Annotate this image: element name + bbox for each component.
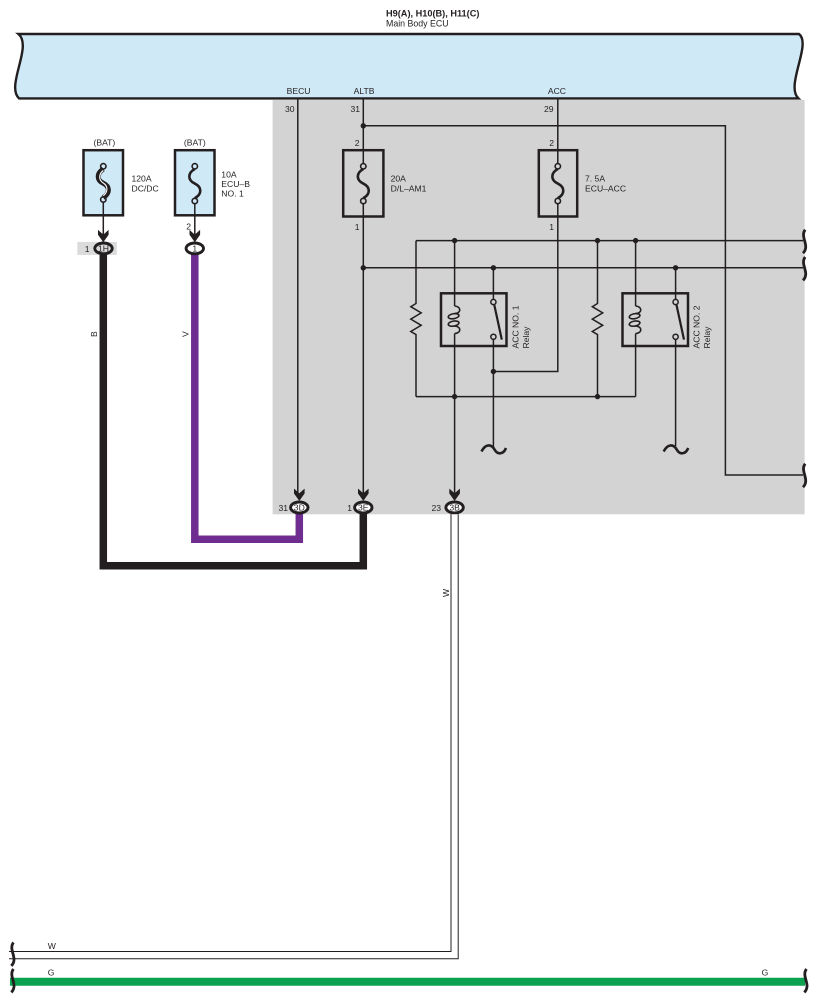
node dot resistor2 bottom [595, 394, 600, 399]
svg-text:Relay: Relay [702, 326, 712, 349]
break symbol W left [11, 943, 14, 966]
fusible link 120A DC/DC (BAT box) [84, 138, 124, 216]
svg-text:3D: 3D [294, 502, 305, 512]
svg-text:Relay: Relay [521, 326, 531, 349]
svg-text:1: 1 [355, 222, 360, 232]
label V [180, 331, 190, 337]
resistor R2 (relay 2 suppression) [592, 241, 602, 397]
connector 3E oval [355, 502, 372, 513]
relay ACC NO.1 box [441, 293, 507, 346]
svg-text:1H: 1H [98, 243, 109, 253]
svg-text:2: 2 [186, 222, 191, 232]
fuse 20A D/L-AM1 [343, 150, 383, 216]
svg-text:1: 1 [85, 244, 90, 254]
resistor R1 (relay 1 suppression) [411, 241, 421, 397]
wire ACC vertical above fuse [557, 99, 559, 164]
label B [89, 331, 99, 337]
ground (relay 1 contact) [482, 372, 507, 454]
relay ACC NO.2 label [692, 305, 713, 348]
connector 1H oval [95, 243, 112, 254]
relay ACC NO.2 coil [629, 241, 641, 397]
svg-text:V: V [180, 331, 190, 337]
break symbol G right [804, 969, 807, 992]
connector 3B arrow [449, 489, 460, 501]
connector 1 oval [186, 243, 203, 254]
fuse 10A ECU-B NO.1 (BAT box) [175, 138, 215, 216]
svg-text:Main Body ECU: Main Body ECU [386, 19, 449, 29]
svg-text:DC/DC: DC/DC [132, 184, 159, 194]
svg-text:31: 31 [350, 104, 360, 114]
svg-text:3E: 3E [358, 502, 369, 512]
relay ACC NO.2 box [623, 293, 689, 346]
connector 3E arrow [358, 489, 369, 501]
svg-text:120A: 120A [132, 174, 152, 184]
node dot relay1 output [491, 369, 496, 374]
svg-text:W: W [441, 588, 451, 597]
svg-text:ALTB: ALTB [354, 86, 375, 96]
svg-text:1: 1 [192, 243, 197, 253]
wire fusible link output [102, 203, 104, 237]
value label 20A D/L-AM1 [391, 174, 427, 194]
node dot line2 at ALTB [361, 265, 366, 270]
wire BECU vertical to 3D [297, 99, 299, 496]
node dot relay1 contact top [491, 265, 496, 270]
value label 10A ECU-B NO.1 [221, 170, 250, 199]
svg-text:NO. 1: NO. 1 [221, 189, 244, 199]
label W (vertical) [441, 588, 451, 597]
wire bus line 1 [416, 240, 803, 242]
relay ACC NO.2 switch [673, 268, 684, 446]
gray ECU internal area [273, 100, 805, 514]
svg-text:(BAT): (BAT) [93, 138, 115, 148]
svg-text:G: G [762, 968, 769, 978]
svg-text:7. 5A: 7. 5A [585, 174, 605, 184]
wire bottom return line [416, 396, 636, 398]
svg-text:ACC NO. 1: ACC NO. 1 [511, 305, 521, 348]
wire G (green) bottom [10, 978, 805, 986]
wire to 3B from bottom line [454, 397, 456, 495]
connector 1 arrow [190, 230, 201, 242]
break symbol ALTB branch right [803, 464, 806, 487]
svg-text:10A: 10A [221, 170, 237, 180]
wire V (violet thick) from 1 to 3D [195, 251, 299, 539]
node dot resistor R2 top [595, 238, 600, 243]
break symbol line2 right [803, 257, 806, 280]
relay ACC NO.1 coil [448, 241, 460, 397]
node dot relay2 contact top [673, 265, 678, 270]
relay ACC NO.1 switch [491, 268, 502, 372]
svg-text:20A: 20A [391, 174, 407, 184]
svg-text:2: 2 [355, 138, 360, 148]
wire B (black thick) from 1H to 3E [103, 251, 363, 566]
connector 3D oval [291, 502, 308, 513]
node dot coil1 bottom [452, 394, 457, 399]
break symbol line1 right [803, 230, 806, 253]
connector 1H arrow [98, 230, 109, 242]
svg-text:30: 30 [285, 104, 295, 114]
svg-text:(BAT): (BAT) [184, 138, 206, 148]
fuse 7.5A ECU-ACC [539, 150, 577, 216]
svg-text:31: 31 [278, 503, 288, 513]
connector 3D arrow [294, 489, 305, 501]
value label 120A DC/DC [132, 174, 159, 194]
relay ACC NO.1 label [511, 305, 532, 348]
svg-text:3B: 3B [449, 502, 460, 512]
wire ALTB branch right and down to right edge break [363, 126, 803, 475]
connector 3B oval [446, 502, 463, 513]
svg-text:23: 23 [431, 503, 441, 513]
node dot relay2 coil top [633, 238, 638, 243]
svg-text:H9(A), H10(B), H11(C): H9(A), H10(B), H11(C) [386, 9, 479, 19]
svg-text:29: 29 [544, 104, 554, 114]
svg-text:D/L–AM1: D/L–AM1 [391, 184, 427, 194]
wire bus line 2 [363, 267, 803, 269]
wire fuse 10A output [194, 204, 196, 237]
wire ACC fuse output down then left to relay 1 contact [493, 204, 557, 372]
svg-text:1: 1 [347, 503, 352, 513]
svg-text:ACC: ACC [548, 86, 566, 96]
svg-text:B: B [89, 331, 99, 337]
svg-text:ECU–B: ECU–B [221, 179, 250, 189]
wire W (white with outline) from 3B to bottom left [8, 514, 455, 955]
connector 1H highlight [77, 242, 117, 255]
svg-text:1: 1 [549, 222, 554, 232]
node dot ALTB branch [361, 123, 366, 128]
svg-text:W: W [48, 941, 57, 951]
Main Body ECU connector band [15, 34, 802, 98]
node dot relay1 coil top [452, 238, 457, 243]
break symbol G left [11, 969, 14, 992]
value label 7.5A ECU-ACC [585, 174, 626, 194]
svg-text:ACC NO. 2: ACC NO. 2 [692, 305, 702, 348]
svg-text:G: G [48, 968, 55, 978]
wire ALTB fuse output down to 3E [362, 204, 364, 496]
svg-text:ECU–ACC: ECU–ACC [585, 184, 626, 194]
svg-text:2: 2 [549, 138, 554, 148]
svg-text:BECU: BECU [287, 86, 311, 96]
ground (relay 2 contact) [664, 445, 689, 453]
wire ALTB vertical above fuse [362, 99, 364, 164]
